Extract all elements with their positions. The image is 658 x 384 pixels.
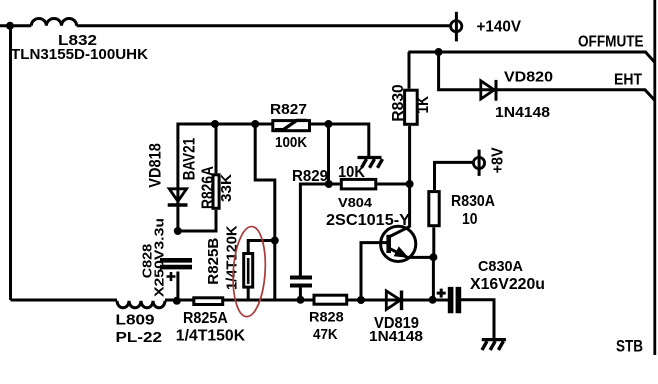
- wire R826A bottom link: [178, 210, 216, 231]
- node junction R829 left: [325, 180, 333, 188]
- svg-text:R825A: R825A: [183, 310, 228, 327]
- svg-text:TLN3155D-100UHK: TLN3155D-100UHK: [11, 46, 148, 63]
- diode VD819: [386, 291, 400, 310]
- resistor R830: [405, 90, 418, 124]
- collector line: [390, 226, 411, 236]
- wire jog from y124 bus down to R825B top: [255, 124, 275, 300]
- svg-text:STB: STB: [616, 337, 643, 356]
- wire OFFMUTE line: [408, 52, 655, 63]
- node junction R826A top: [211, 120, 219, 128]
- svg-text:PL-22: PL-22: [116, 329, 163, 346]
- base bar: [386, 235, 391, 253]
- wire top bus +140V from left edge to terminal: [0, 24, 451, 27]
- wire VD820 branch down and EHT line: [439, 52, 655, 101]
- svg-text:R827: R827: [270, 101, 307, 118]
- node junction VD818/C828/R826A: [174, 227, 182, 235]
- polarity + of C828: [167, 272, 176, 281]
- svg-text:R825B: R825B: [206, 238, 222, 285]
- wire R825B bottom lead: [247, 287, 250, 300]
- svg-text:+8V: +8V: [490, 147, 507, 173]
- svg-text:R829: R829: [292, 168, 328, 185]
- svg-text:100K: 100K: [275, 134, 307, 151]
- resistor R828: [314, 295, 347, 304]
- capacitor unlabeled near R828: [290, 278, 312, 286]
- svg-text:10: 10: [462, 211, 478, 228]
- resistor R827: [273, 121, 310, 131]
- wire R830A bottom lead: [432, 227, 435, 256]
- node junction cap/bus: [297, 296, 305, 304]
- node junction emitter/R830A: [429, 253, 437, 261]
- wire mid bus y124: [178, 124, 369, 231]
- wire R829 left to cap branch: [300, 184, 339, 276]
- node junction C828/bus: [173, 297, 181, 305]
- svg-text:2SC1015-Y: 2SC1015-Y: [326, 212, 410, 229]
- svg-text:R830A: R830A: [451, 193, 495, 210]
- node junction OFFMUTE/VD820 branch: [435, 48, 443, 56]
- wire bottom bus: [11, 299, 449, 302]
- svg-text:10K: 10K: [338, 164, 365, 181]
- svg-text:1N4148: 1N4148: [495, 104, 550, 121]
- wire C828 bottom lead: [176, 272, 179, 301]
- wire right border bus: [653, 0, 656, 355]
- node junction base/bus: [357, 296, 365, 304]
- svg-text:1K: 1K: [413, 95, 432, 113]
- emitter line with arrow: [390, 249, 410, 259]
- wire C830A right to ground: [461, 300, 494, 339]
- svg-text:R830: R830: [390, 84, 407, 121]
- wire R829 right to node: [377, 183, 409, 186]
- diode VD818: [169, 189, 186, 202]
- wire left vertical: [9, 26, 12, 300]
- base wire: [361, 243, 387, 300]
- svg-text:EHT: EHT: [614, 72, 642, 89]
- svg-text:VD820: VD820: [504, 69, 553, 86]
- svg-text:+140V: +140V: [477, 19, 522, 36]
- wire R830 top lead: [408, 52, 411, 89]
- highlight red ellipse: [231, 226, 268, 318]
- terminal +140V: [455, 12, 458, 42]
- svg-text:R826A: R826A: [198, 166, 217, 209]
- svg-text:VD818: VD818: [145, 143, 164, 188]
- wire R830 bottom to collector: [408, 126, 411, 227]
- terminal +8V: [478, 150, 481, 176]
- svg-text:C830A: C830A: [478, 258, 523, 275]
- node junction top-left: [6, 22, 14, 30]
- wire cap bottom lead: [299, 286, 302, 301]
- emitter wire to node: [407, 256, 433, 259]
- diode VD820: [481, 81, 494, 99]
- resistor R830A: [429, 192, 439, 226]
- wire R826A top lead: [215, 124, 218, 173]
- ground bottom right: [482, 338, 506, 341]
- node junction R825B top: [271, 237, 279, 245]
- resistor R829: [341, 179, 376, 189]
- svg-text:X250V3.3u: X250V3.3u: [151, 218, 166, 297]
- wire R825B top lead: [248, 241, 275, 254]
- polarity + of C830A: [437, 289, 446, 298]
- capacitor C830A: [451, 287, 459, 313]
- node junction R829 right / collector: [406, 180, 414, 188]
- inductor L809: [117, 301, 165, 308]
- wire emitter node down to bus: [432, 257, 435, 299]
- svg-text:OFFMUTE: OFFMUTE: [578, 33, 644, 50]
- transistor V804: [381, 226, 416, 261]
- resistor R825B: [244, 254, 253, 288]
- svg-text:R828: R828: [309, 309, 344, 325]
- resistor R825A: [194, 298, 223, 305]
- svg-text:L809: L809: [116, 312, 155, 329]
- node junction jog top: [251, 120, 259, 128]
- svg-text:33K: 33K: [218, 174, 235, 202]
- capacitor C828: [160, 260, 192, 267]
- svg-text:V804: V804: [338, 196, 372, 210]
- wire R827right down to R829: [327, 124, 330, 184]
- inductor L832: [31, 18, 76, 25]
- wire +8V to R830A: [435, 162, 474, 190]
- node junction bus/C830A: [429, 296, 437, 304]
- resistor R826A: [213, 175, 219, 209]
- node junction R827 right: [325, 120, 333, 128]
- svg-text:1N4148: 1N4148: [369, 328, 423, 345]
- ground near 10K: [358, 156, 382, 159]
- svg-text:1/4T150K: 1/4T150K: [176, 327, 246, 344]
- svg-text:BAV21: BAV21: [180, 138, 199, 181]
- svg-text:47K: 47K: [313, 326, 338, 343]
- svg-text:X16V220u: X16V220u: [470, 276, 545, 293]
